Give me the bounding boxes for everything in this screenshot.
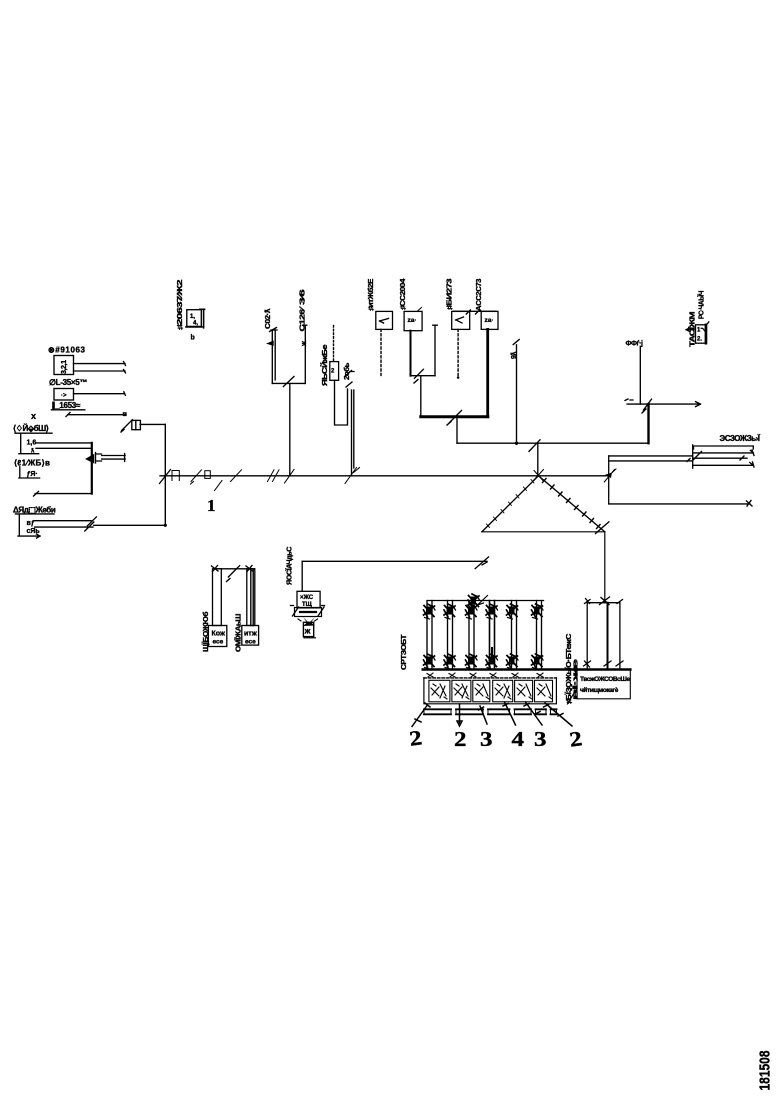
- left pair top wire: [215, 568, 254, 570]
- device apu box top: [297, 591, 320, 608]
- leader to callout 4: [503, 702, 516, 725]
- svg-text:3,2,1: 3,2,1: [61, 360, 68, 374]
- svg-text:есе: есе: [213, 639, 224, 646]
- svg-text:ж: ж: [304, 627, 311, 636]
- wire from K2: [74, 392, 126, 396]
- bus V2 vertical: [164, 424, 166, 525]
- wire 00 drop: [639, 346, 641, 404]
- svg-text:АCC2С73: АCC2С73: [476, 278, 483, 311]
- slash on s2: [694, 452, 702, 460]
- svg-text:1: 1: [207, 496, 216, 515]
- svg-text:×ЖС: ×ЖС: [300, 595, 314, 601]
- wire right drop: [608, 456, 610, 504]
- wire right branch of box2: [433, 325, 438, 376]
- svg-text:⊗#91063: ⊗#91063: [48, 346, 86, 355]
- wire drop from tee to main bus: [289, 383, 291, 475]
- wire bottom of bus V1: [34, 492, 92, 497]
- bracket under #1034: [19, 433, 39, 454]
- wire pair c02 drop: [272, 330, 275, 383]
- svg-text:za·: za·: [408, 317, 417, 324]
- svg-text:РС·ЧАЬЇЧ: РС·ЧАЬЇЧ: [698, 291, 706, 319]
- terminal cell 3: [473, 680, 490, 702]
- leader slash over manifold: [470, 596, 488, 613]
- wire bottom long: [609, 501, 752, 507]
- label #51214A underlined: [13, 506, 56, 515]
- svg-text:2.: 2.: [697, 337, 702, 343]
- injector group 1: [424, 601, 436, 670]
- fitting marks at st2 loop top: [345, 371, 355, 388]
- device apu stem: [303, 622, 315, 638]
- svg-text:ΔЯд⬚Жеби: ΔЯд⬚Жеби: [13, 506, 56, 515]
- bracket fitting on bus: [172, 471, 179, 481]
- terminal block housing: [424, 678, 557, 704]
- stub wire s4: [693, 462, 754, 467]
- injector group 2: [444, 601, 456, 670]
- svg-text:3: 3: [480, 727, 493, 751]
- long descender wire: [604, 532, 606, 603]
- valve V6 box4: [481, 311, 498, 329]
- triangle left side: [482, 476, 539, 532]
- junction dot V2: [164, 524, 167, 527]
- injector group 3: [466, 594, 480, 669]
- arrow tick on c02 pair: [268, 342, 273, 346]
- leader to callout 3a: [479, 706, 488, 724]
- wire 2 to bus V1: [36, 447, 92, 449]
- svg-text:·>: ·>: [61, 393, 67, 399]
- label #1034 underlined: [13, 424, 52, 433]
- apex junction marks: [533, 470, 544, 482]
- label L1653 underlined: [51, 401, 84, 410]
- wire apu drop: [301, 561, 303, 591]
- connector J1 (top-left small box): [186, 309, 205, 341]
- dashed drop from box3: [457, 329, 459, 376]
- long wire left-to-bracket a: [609, 455, 693, 457]
- thick manifold wire: [421, 415, 488, 418]
- svg-text:вƒ: вƒ: [27, 520, 35, 527]
- wire 40 to V2: [140, 423, 165, 425]
- terminal cell 1: [429, 680, 450, 702]
- slash on cross wire: [529, 440, 540, 452]
- wire pair st2 to bus: [352, 390, 354, 476]
- stub wire s3: [693, 456, 747, 460]
- terminal cell 5: [515, 680, 533, 702]
- dashed drop from box1: [380, 329, 382, 377]
- wire stub under L1653: [66, 413, 126, 417]
- cylinder C1 base box: [208, 626, 226, 647]
- note box: [577, 670, 630, 699]
- wire manifold down: [456, 417, 458, 444]
- slash on arrow wire: [642, 399, 652, 413]
- long wire left-to-bracket b: [609, 459, 693, 462]
- svg-text:♯CC2004: ♯CC2004: [400, 278, 407, 310]
- svg-text:сЯь: сЯь: [27, 528, 41, 535]
- wire box2 to thick manifold: [420, 376, 422, 417]
- svg-text:b: b: [191, 335, 195, 342]
- main bus wire: [160, 475, 609, 477]
- double slash fitting: [268, 470, 280, 482]
- relay K2 box: [54, 389, 74, 401]
- svg-text:∥_1653≈: ∥_1653≈: [52, 401, 81, 410]
- connector blob c02: [270, 328, 278, 332]
- wire st2 U loop: [335, 380, 348, 425]
- svg-text:есе: есе: [245, 639, 256, 646]
- svg-text:x: x: [31, 411, 36, 421]
- wire from K1 pin a: [74, 362, 126, 366]
- stub wire s1: [693, 446, 754, 449]
- slash at bus start: [160, 470, 171, 484]
- wire cross horizontal: [457, 442, 649, 444]
- wire box3-box4 top link: [453, 310, 496, 314]
- svg-text:Кож: Кож: [212, 631, 226, 638]
- sensor pairbox right: [584, 599, 624, 669]
- valve V5 box3: [452, 311, 470, 329]
- svg-text:♯итЖб2Е: ♯итЖб2Е: [367, 278, 375, 311]
- arrow wire right: [625, 399, 701, 407]
- manifold top wire: [428, 600, 544, 602]
- device apu box bottom: [291, 606, 325, 627]
- svg-text:ЯЬСЙжБе: ЯЬСЙжБе: [320, 344, 329, 386]
- injector group 6: [532, 601, 544, 670]
- svg-text:⟨♢Й⬙бШ⟩: ⟨♢Й⬙бШ⟩: [13, 424, 49, 433]
- svg-text:9ƛ: 9ƛ: [511, 352, 518, 359]
- heavy wire box4 drop: [486, 329, 489, 416]
- stub wire s2: [693, 450, 754, 456]
- svg-text:4: 4: [512, 727, 525, 751]
- valve V3 box1: [376, 311, 393, 329]
- slash fitting at st2 drop: [345, 468, 360, 484]
- fitting box on bus: [205, 471, 211, 479]
- wire from K1 pin b: [74, 370, 126, 374]
- wire apu long horizontal: [302, 560, 487, 562]
- slash fitting 1b: [215, 470, 242, 491]
- svg-text:ЩЇБОЖЮб: ЩЇБОЖЮб: [202, 611, 210, 652]
- bracket under (L1/2)b: [19, 467, 40, 478]
- triangle base: [482, 531, 605, 533]
- stub wires right of arrow: [102, 454, 125, 462]
- wire down to apex: [537, 443, 539, 476]
- svg-text:СРТЗОБТ: СРТЗОБТ: [401, 634, 408, 670]
- label C126/316 vertical: [300, 289, 309, 347]
- injector group 4: [486, 601, 498, 670]
- injector group 5: [507, 601, 519, 670]
- terminal cell 4: [493, 680, 513, 702]
- svg-text:итж: итж: [244, 631, 258, 638]
- svg-text:♯20637⁄Ж2: ♯20637⁄Ж2: [177, 279, 184, 330]
- bracket under #51214A: [18, 514, 40, 538]
- svg-text:ƒЯ·: ƒЯ·: [27, 471, 38, 478]
- slash at apu wire end: [475, 557, 488, 569]
- svg-text:181508: 181508: [757, 1051, 774, 1091]
- rail thick wire: [423, 668, 631, 671]
- triangle right side hatched: [539, 476, 605, 532]
- cylinder C2 tube: [247, 569, 255, 626]
- terminal box U2: [686, 322, 709, 343]
- wire c02 bottom horizontal: [272, 382, 305, 384]
- device st2 narrow box: [330, 362, 339, 381]
- wire 51214 line1: [35, 517, 97, 526]
- tick at descender end: [600, 597, 610, 605]
- svg-text:чйтищмокагѐ: чйтищмокагѐ: [580, 686, 619, 694]
- feet ticks under rail: [427, 673, 543, 677]
- svg-text:3⁄6: 3⁄6: [300, 289, 307, 305]
- svg-text:1,: 1,: [190, 314, 195, 320]
- leader to callout 2a: [412, 703, 430, 727]
- svg-text:♯БИ273: ♯БИ273: [447, 278, 454, 310]
- leader to callout 3b: [524, 702, 542, 725]
- wire box2 drop: [410, 331, 412, 376]
- svg-text:∅L-35×5™: ∅L-35×5™: [49, 378, 87, 387]
- wire 1 to bus V1: [36, 442, 92, 444]
- svg-text:ОМЇЖАьШ: ОМЇЖАьШ: [235, 614, 243, 652]
- slash at note box corner: [567, 690, 576, 704]
- svg-text:C02·ƛ: C02·ƛ: [265, 308, 272, 329]
- wire 51214 line2 to V2: [35, 522, 166, 531]
- wire 9A vertical: [513, 340, 519, 444]
- svg-text:3: 3: [534, 727, 547, 751]
- cylinder C2 base box: [242, 626, 259, 646]
- relay K1 box: [54, 356, 74, 375]
- svg-text:C126⁄: C126⁄: [300, 305, 307, 331]
- slash at c02 tee: [283, 377, 294, 387]
- tick marks pair tops: [212, 566, 253, 572]
- bottom rail segments: [424, 709, 557, 714]
- svg-text:ЯОСЇАЧдьС: ЯОСЇАЧдьС: [286, 547, 294, 585]
- leader to callout 2c: [544, 703, 573, 726]
- slash fitting 1a: [191, 470, 202, 484]
- heavy wire to cross: [647, 404, 649, 443]
- svg-text:вЇ·же: вЇ·же: [572, 659, 580, 700]
- svg-text:1,6: 1,6: [27, 440, 37, 447]
- wire c126 vertical: [303, 325, 307, 383]
- svg-text:ТвсжОЖСОВсШе: ТвсжОЖСОВсШе: [580, 676, 630, 683]
- dot at end of box3 drop: [457, 376, 460, 379]
- slash at base corner: [596, 522, 609, 534]
- connector 40 with slash: [121, 420, 140, 432]
- terminal cell 6: [535, 680, 553, 702]
- connector bracket SC302: [692, 445, 694, 468]
- valve V4 box2: [404, 311, 422, 330]
- leader to callout 2b: [457, 704, 462, 726]
- slash on left pair top: [227, 566, 240, 582]
- cylinder C1 tube: [213, 569, 222, 626]
- dotted lead above st2: [333, 326, 335, 361]
- svg-text:1⌥: 1⌥: [697, 328, 707, 334]
- svg-text:ЭСЗОЖЗь›Ї: ЭСЗОЖЗь›Ї: [720, 434, 761, 443]
- slash at bus right end: [604, 469, 616, 482]
- terminal cell 2: [452, 680, 471, 702]
- label +5b rows: [27, 520, 41, 535]
- bus V1 vertical: [91, 443, 93, 494]
- svg-text:4,: 4,: [193, 321, 198, 327]
- slash on box2 drop: [414, 369, 423, 383]
- slash on manifold: [447, 411, 462, 426]
- arrow into bus V1: [87, 453, 102, 464]
- svg-text:2: 2: [454, 727, 467, 751]
- svg-text:za·: za·: [485, 317, 494, 324]
- slash fitting at c02 drop: [285, 470, 295, 484]
